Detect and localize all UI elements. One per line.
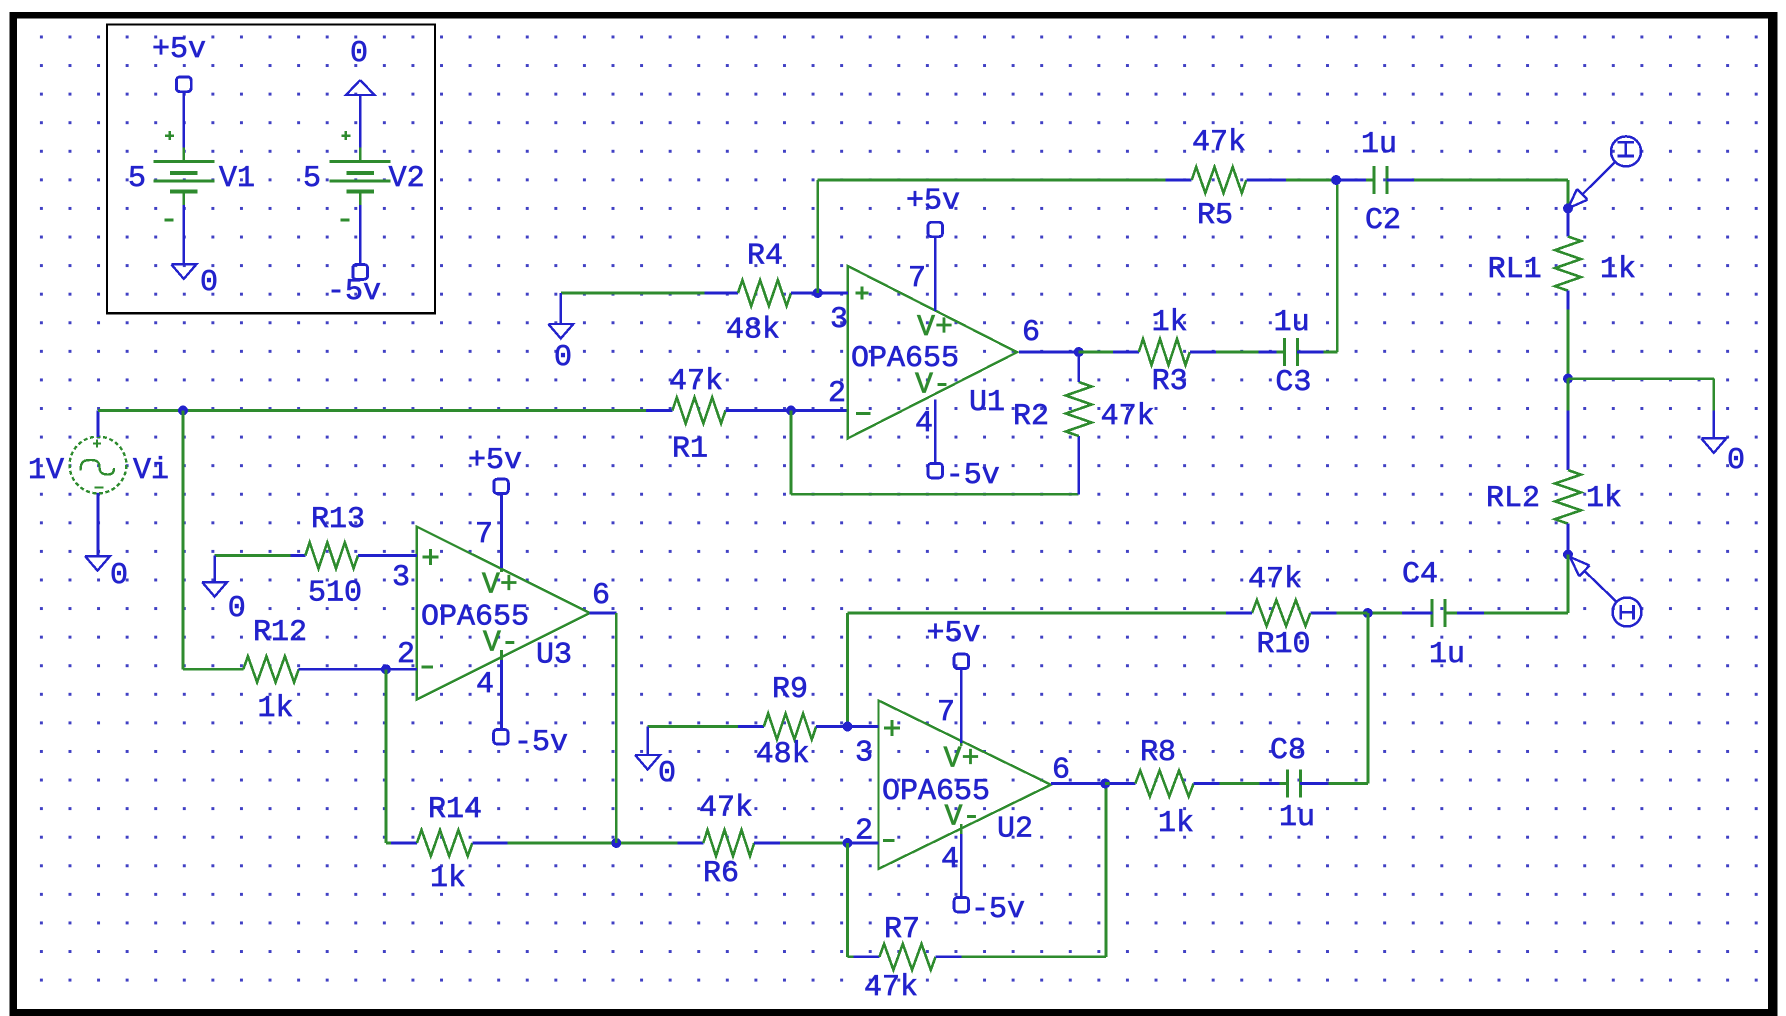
svg-text:1k: 1k: [1600, 253, 1636, 287]
svg-text:-5v: -5v: [327, 275, 381, 309]
svg-text:1k: 1k: [1586, 482, 1622, 516]
svg-text:5: 5: [128, 162, 146, 196]
svg-text:3: 3: [855, 737, 873, 771]
svg-text:RL2: RL2: [1486, 482, 1540, 516]
svg-text:+5v: +5v: [906, 185, 960, 219]
svg-text:1V: 1V: [28, 454, 64, 488]
svg-text:V+: V+: [482, 569, 518, 603]
svg-text:R4: R4: [747, 240, 783, 274]
svg-text:47k: 47k: [1101, 400, 1155, 434]
svg-text:R3: R3: [1152, 365, 1188, 399]
svg-text:C2: C2: [1365, 204, 1401, 238]
svg-text:R6: R6: [703, 857, 739, 891]
svg-text:1k: 1k: [430, 862, 466, 896]
svg-text:R1: R1: [672, 433, 708, 467]
svg-text:1u: 1u: [1279, 801, 1315, 835]
svg-text:4: 4: [915, 407, 933, 441]
svg-text:-5v: -5v: [946, 459, 1000, 493]
svg-text:7: 7: [475, 518, 493, 552]
svg-text:C4: C4: [1402, 558, 1438, 592]
svg-text:7: 7: [908, 262, 926, 296]
svg-text:V2: V2: [389, 162, 425, 196]
svg-text:R8: R8: [1140, 736, 1176, 770]
svg-text:R2: R2: [1013, 400, 1049, 434]
svg-text:3: 3: [830, 303, 848, 337]
svg-text:47k: 47k: [1248, 563, 1302, 597]
svg-text:0: 0: [110, 559, 128, 593]
svg-text:-5v: -5v: [971, 893, 1025, 927]
svg-text:1k: 1k: [1158, 807, 1194, 841]
svg-text:OPA655: OPA655: [851, 342, 959, 376]
svg-text:R10: R10: [1257, 628, 1311, 662]
svg-text:0: 0: [554, 341, 572, 375]
svg-text:U3: U3: [536, 639, 572, 673]
svg-text:R14: R14: [428, 793, 482, 827]
svg-text:R13: R13: [311, 503, 365, 537]
svg-text:0: 0: [350, 37, 368, 71]
svg-text:-5v: -5v: [514, 726, 568, 760]
svg-text:RL1: RL1: [1488, 253, 1542, 287]
svg-text:R9: R9: [772, 673, 808, 707]
svg-text:4: 4: [476, 668, 494, 702]
svg-text:+5v: +5v: [927, 617, 981, 651]
svg-text:5: 5: [303, 162, 321, 196]
svg-text:1u: 1u: [1429, 638, 1465, 672]
svg-text:1u: 1u: [1274, 306, 1310, 340]
svg-text:47k: 47k: [864, 971, 918, 1005]
svg-text:U1: U1: [969, 386, 1005, 420]
svg-text:V+: V+: [917, 311, 953, 345]
svg-text:0: 0: [228, 592, 246, 626]
svg-text:C8: C8: [1270, 734, 1306, 768]
svg-text:R7: R7: [884, 913, 920, 947]
svg-text:+5v: +5v: [468, 444, 522, 478]
svg-text:47k: 47k: [699, 792, 753, 826]
svg-text:1u: 1u: [1361, 128, 1397, 162]
svg-text:U2: U2: [997, 813, 1033, 847]
svg-text:47k: 47k: [1192, 126, 1246, 160]
svg-text:C3: C3: [1275, 366, 1311, 400]
svg-text:V+: V+: [944, 743, 980, 777]
svg-text:R12: R12: [253, 616, 307, 650]
svg-text:V1: V1: [219, 162, 255, 196]
svg-text:0: 0: [200, 266, 218, 300]
svg-text:3: 3: [392, 561, 410, 595]
svg-text:7: 7: [937, 696, 955, 730]
svg-text:48k: 48k: [726, 314, 780, 348]
svg-text:0: 0: [1727, 444, 1745, 478]
svg-text:R5: R5: [1197, 199, 1233, 233]
svg-text:4: 4: [941, 843, 959, 877]
svg-text:1k: 1k: [258, 692, 294, 726]
svg-text:2: 2: [828, 377, 846, 411]
svg-text:47k: 47k: [669, 365, 723, 399]
svg-text:1k: 1k: [1152, 306, 1188, 340]
svg-text:Vi: Vi: [133, 454, 169, 488]
svg-text:6: 6: [1022, 316, 1040, 350]
svg-text:48k: 48k: [756, 738, 810, 772]
svg-text:+5v: +5v: [152, 33, 206, 67]
svg-text:0: 0: [658, 757, 676, 791]
svg-text:2: 2: [397, 638, 415, 672]
svg-text:510: 510: [308, 577, 362, 611]
svg-text:OPA655: OPA655: [882, 775, 990, 809]
svg-text:6: 6: [592, 579, 610, 613]
svg-text:OPA655: OPA655: [421, 601, 529, 635]
